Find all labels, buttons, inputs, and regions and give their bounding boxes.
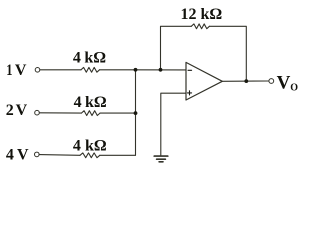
svg-text:2: 2 (6, 102, 14, 119)
svg-text:4: 4 (74, 94, 82, 111)
svg-text:V: V (15, 62, 27, 79)
svg-text:O: O (290, 83, 298, 94)
svg-text:kΩ: kΩ (85, 138, 107, 155)
svg-text:4: 4 (73, 50, 81, 67)
svg-text:12 kΩ: 12 kΩ (181, 6, 223, 23)
svg-text:V: V (16, 102, 28, 119)
svg-text:4: 4 (6, 146, 14, 163)
svg-text:4: 4 (73, 138, 81, 155)
svg-text:1: 1 (6, 61, 12, 79)
svg-text:kΩ: kΩ (84, 50, 106, 67)
svg-text:V: V (277, 72, 291, 93)
svg-text:kΩ: kΩ (85, 94, 107, 111)
svg-text:V: V (17, 146, 29, 163)
